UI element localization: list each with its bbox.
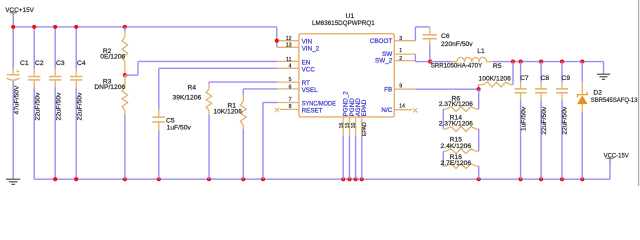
svg-text:C1: C1 — [20, 60, 29, 67]
svg-text:D2: D2 — [593, 89, 602, 96]
svg-text:5: 5 — [289, 77, 292, 83]
svg-text:VCC: VCC — [302, 66, 316, 73]
svg-text:22uF/50v: 22uF/50v — [76, 92, 83, 121]
svg-text:3: 3 — [399, 36, 402, 42]
svg-text:1uF/50v: 1uF/50v — [167, 124, 192, 131]
svg-text:0E/1206: 0E/1206 — [100, 54, 125, 61]
svg-text:39K/1206: 39K/1206 — [173, 95, 202, 102]
svg-text:C6: C6 — [441, 33, 450, 40]
svg-text:2.7E/1206: 2.7E/1206 — [441, 160, 472, 167]
svg-text:SRR1050HA-470Y: SRR1050HA-470Y — [431, 62, 483, 69]
svg-text:R5: R5 — [493, 63, 502, 70]
svg-text:VCC+15V: VCC+15V — [5, 7, 34, 14]
svg-text:VIN_2: VIN_2 — [302, 45, 320, 52]
svg-text:22uF/50v: 22uF/50v — [55, 92, 62, 121]
svg-text:N/C: N/C — [381, 107, 392, 114]
svg-text:SBR545SAFQ-13: SBR545SAFQ-13 — [591, 97, 638, 104]
svg-text:C3: C3 — [56, 60, 65, 67]
svg-text:VSEL: VSEL — [302, 87, 319, 94]
svg-text:+: + — [16, 69, 19, 75]
svg-text:220nF/50v: 220nF/50v — [441, 41, 473, 48]
svg-text:1uF/50v: 1uF/50v — [520, 106, 527, 131]
svg-text:14: 14 — [399, 104, 405, 110]
svg-text:100K/1206: 100K/1206 — [479, 75, 512, 82]
svg-text:DNP/1206: DNP/1206 — [94, 84, 125, 91]
svg-text:22uF/50v: 22uF/50v — [541, 106, 548, 135]
svg-text:C5: C5 — [166, 117, 175, 124]
svg-text:C7: C7 — [520, 75, 529, 82]
svg-text:EPAD: EPAD — [362, 122, 368, 136]
svg-text:4: 4 — [289, 64, 292, 70]
svg-text:C8: C8 — [541, 75, 550, 82]
svg-text:C4: C4 — [77, 60, 86, 67]
svg-text:R4: R4 — [187, 85, 196, 92]
svg-text:6: 6 — [289, 84, 292, 90]
svg-text:10: 10 — [351, 123, 357, 129]
svg-text:1: 1 — [399, 48, 402, 54]
svg-text:C9: C9 — [562, 75, 571, 82]
svg-text:15: 15 — [345, 123, 351, 129]
svg-text:2.37K/1206: 2.37K/1206 — [439, 121, 473, 128]
svg-text:16: 16 — [339, 123, 345, 129]
svg-text:22uF/50v: 22uF/50v — [34, 92, 41, 121]
svg-text:FB: FB — [384, 86, 392, 93]
svg-text:8: 8 — [289, 104, 292, 110]
svg-text:2: 2 — [399, 56, 402, 62]
svg-text:11: 11 — [286, 57, 291, 63]
svg-text:13: 13 — [286, 43, 292, 49]
svg-text:7: 7 — [289, 97, 292, 103]
svg-text:SW_2: SW_2 — [375, 58, 393, 65]
svg-text:2.37K/1206: 2.37K/1206 — [439, 101, 473, 108]
svg-text:EPAD: EPAD — [361, 99, 368, 116]
svg-text:C2: C2 — [35, 60, 44, 67]
svg-text:2.4K/1206: 2.4K/1206 — [441, 143, 472, 150]
svg-text:LM63615DQPWPRQ1: LM63615DQPWPRQ1 — [312, 20, 375, 27]
svg-text:47uF/50V: 47uF/50V — [13, 85, 20, 115]
svg-text:10K/1206: 10K/1206 — [213, 108, 242, 115]
svg-text:9: 9 — [399, 84, 402, 90]
svg-text:12: 12 — [286, 36, 292, 42]
svg-text:CBOOT: CBOOT — [370, 38, 393, 45]
svg-text:L1: L1 — [477, 48, 485, 55]
svg-text:22uF/50v: 22uF/50v — [562, 106, 569, 135]
svg-text:RESET: RESET — [302, 107, 323, 114]
